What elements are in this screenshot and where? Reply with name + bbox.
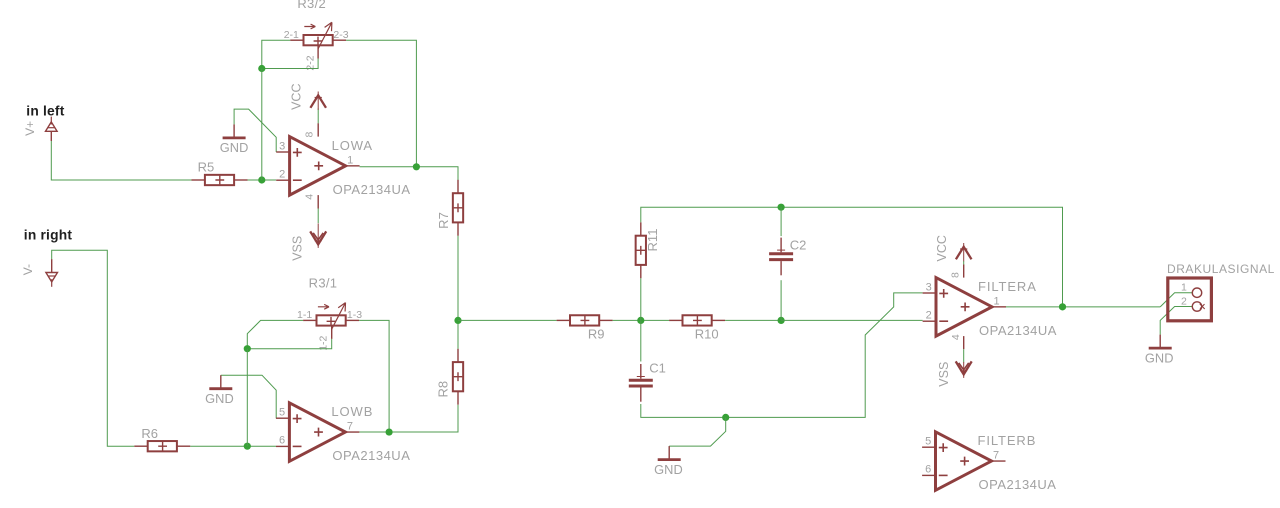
wire pot R3/2 left arm [262,40,290,68]
svg-text:R7: R7 [436,212,451,229]
svg-text:in left: in left [26,103,64,118]
ground GND (LOWA) [220,124,249,155]
wire LOWB output to R8 [359,405,458,432]
power VSS arrow (FILTERA) [937,361,972,386]
label in right [24,227,73,242]
svg-text:R11: R11 [645,229,660,252]
wire pin8 to VCC (FILTERA) [963,261,965,264]
wire R7 to bus junction [457,236,459,321]
FILTERA pin4 stub [950,334,964,349]
power VCC arrow (LOWA) [289,83,326,109]
node junction LOWA output [413,163,420,170]
svg-text:in right: in right [24,227,73,242]
node junction LOWB output [386,428,393,435]
node junction R7/R8 bus [454,317,461,324]
op-amp LOWB (OPA2134UA) [276,403,410,463]
node junction C2 bottom [778,317,785,324]
wire pot R3/1 right arm to LOWB output [359,320,389,432]
op-amp LOWA (OPA2134UA) [276,137,410,197]
svg-text:VCC: VCC [289,83,303,109]
potentiometer R3/1 body [303,315,359,339]
svg-text:1: 1 [347,154,353,166]
wire pin8 to VCC [317,109,319,124]
wire R11 bottom to centre node [640,278,642,320]
wire FILTERA output [1006,306,1160,308]
FILTERA pin8 stub [949,264,963,278]
svg-text:2-1: 2-1 [284,29,299,41]
svg-text:6: 6 [279,435,285,447]
svg-text:7: 7 [347,421,353,433]
svg-text:OPA2134UA: OPA2134UA [332,448,410,463]
resistor R5 [192,160,248,185]
svg-text:LOWB: LOWB [331,404,373,419]
wire pot R3/1 node down to pin6 node [246,349,248,447]
node junction R5/pin2 [258,176,265,183]
svg-text:2: 2 [1181,296,1187,308]
wire centre node to C1 [640,320,642,361]
svg-text:4: 4 [304,194,316,200]
wire pot R3/1 left arm [247,320,303,348]
svg-text:R3/2: R3/2 [297,0,326,11]
supply V- symbol [21,259,58,287]
wire GND to LOWB pin5 [221,375,276,418]
wire C1 to FILTERA pin3 [641,293,923,418]
connector DRAKULASIGNAL [1167,262,1275,321]
svg-text:1-1: 1-1 [297,309,312,321]
resistor R10 [669,315,725,341]
svg-text:5: 5 [279,407,285,419]
wire pin4 to VSS [317,209,319,224]
potentiometer R3/2 body [290,35,346,59]
wire pot R3/2 wiper to node [262,59,318,69]
svg-text:1-3: 1-3 [347,309,362,321]
svg-text:1: 1 [994,295,1000,307]
pot R3/1 wiper arrow [318,303,346,330]
supply V+ symbol [23,117,57,141]
label in left [26,103,64,118]
wire connector pin2 to GND [1160,307,1192,335]
wire bus to R9 [458,319,557,321]
resistor R7 [436,180,463,236]
LOWA pin8 stub [304,123,319,137]
wire C2 bottom [780,280,782,320]
wire pin4 to VSS (FILTERA) [963,349,965,362]
svg-text:R8: R8 [436,381,451,398]
wire C2 top [780,207,782,236]
wire C2 node to FILTERA pin2 [781,319,923,321]
node junction centre [637,317,644,324]
wire R8 to bus junction [457,320,459,348]
node junction pot R3/1 [244,345,251,352]
svg-text:C1: C1 [649,361,666,376]
label connector pin 2 [1181,296,1187,308]
LOWA pin4 stub [304,194,319,209]
label pin 2-2 [304,55,316,70]
label connector pin 1 [1181,282,1187,294]
node junction C2 top [778,204,785,211]
ground GND (LOWB) [205,375,234,406]
svg-text:5: 5 [925,436,931,448]
wire R6 to LOWB pin6 node [190,445,276,447]
node junction pot R3/2 [258,65,265,72]
svg-text:R10: R10 [695,327,719,342]
svg-text:8: 8 [304,132,316,138]
svg-text:OPA2134UA: OPA2134UA [979,477,1057,492]
svg-text:6: 6 [925,464,931,476]
svg-text:VSS: VSS [290,236,304,261]
svg-text:OPA2134UA: OPA2134UA [333,182,411,197]
ground GND (centre) [654,446,683,477]
svg-text:R5: R5 [198,160,215,175]
svg-text:2: 2 [279,169,285,181]
svg-text:LOWA: LOWA [332,138,373,153]
op-amp FILTERA (OPA2134UA) [923,278,1057,338]
power VCC arrow (FILTERA) [935,235,972,261]
wire to connector pin1 [1160,293,1192,307]
wire R5 to LOWA pin2 node [248,179,277,181]
pot R3/2 wiper arrow [304,22,332,49]
svg-text:R9: R9 [588,327,605,342]
svg-text:GND: GND [1145,350,1174,365]
label R3/1 [309,276,338,291]
svg-text:DRAKULASIGNAL: DRAKULASIGNAL [1167,262,1275,276]
resistor R8 [436,349,464,405]
wire R9 to centre node [613,319,670,321]
svg-text:2: 2 [926,310,932,322]
node junction FILTERA output [1059,303,1066,310]
svg-text:C2: C2 [790,238,807,253]
label pin 2-1 [284,29,299,41]
svg-text:GND: GND [220,140,249,155]
svg-text:4: 4 [950,334,962,340]
resistor R6 [134,426,190,451]
label R3/2 [297,0,326,11]
svg-text:VSS: VSS [937,362,951,387]
svg-text:3: 3 [926,281,932,293]
svg-text:1: 1 [1181,282,1187,294]
svg-text:FILTERB: FILTERB [978,433,1037,448]
ground GND (connector) [1145,335,1174,366]
svg-text:8: 8 [949,272,961,278]
label pin 2-3 [333,29,348,41]
wire LOWA output to R7 [360,167,458,180]
svg-text:GND: GND [654,462,683,477]
wire pot node down to pin2 node [261,69,263,181]
resistor R9 [557,315,613,341]
svg-text:3: 3 [279,140,285,152]
svg-text:7: 7 [993,450,999,462]
node junction R6/pin6 [244,443,251,450]
svg-text:FILTERA: FILTERA [978,279,1037,294]
svg-text:V+: V+ [23,121,37,136]
label pin 1-1 [297,309,312,321]
wire pot R3/1 wiper to node [247,339,331,349]
svg-text:GND: GND [205,391,234,406]
power VSS arrow (LOWA) [290,223,326,260]
resistor R11 [636,222,660,278]
wire V+ to R5 [51,141,191,180]
svg-text:V-: V- [21,264,35,275]
svg-text:2-3: 2-3 [333,29,348,41]
wire R10 to C2 node [725,319,781,321]
label pin 1-3 [347,309,362,321]
svg-text:R3/1: R3/1 [309,276,338,291]
wire feedback top [641,207,1063,307]
wire GND to LOWA pin3 [234,109,276,152]
capacitor C1 [629,361,666,402]
svg-text:VCC: VCC [935,235,949,261]
wire V- to R6 [52,250,135,446]
wire to GND (centre) [669,417,726,446]
svg-text:OPA2134UA: OPA2134UA [979,323,1057,338]
label pin 1-2 [318,335,330,350]
svg-text:R6: R6 [141,426,158,441]
op-amp FILTERB (OPA2134UA) [922,432,1056,492]
capacitor C2 [769,238,806,276]
wire pot R3/2 right arm to LOWA output [346,40,416,167]
node junction C1 wire [722,414,729,421]
